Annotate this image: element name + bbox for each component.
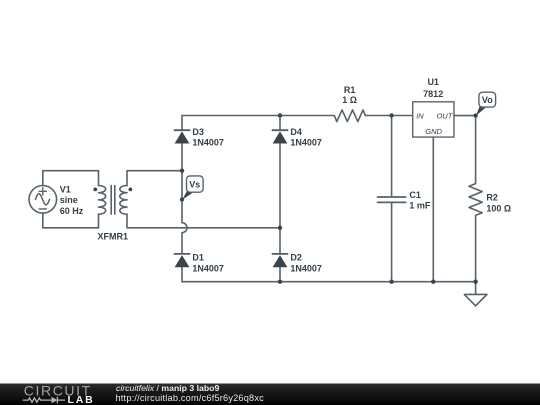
wire R1 to U1	[366, 115, 413, 117]
svg-text:D3: D3	[192, 127, 204, 137]
wire top rail	[182, 115, 334, 117]
svg-text:C1: C1	[409, 190, 421, 200]
diode D1	[174, 254, 191, 267]
svg-text:LAB: LAB	[68, 394, 95, 405]
junction dot secondary top	[180, 169, 184, 173]
svg-text:Vs: Vs	[189, 179, 200, 189]
logo diode triangle	[52, 397, 58, 404]
svg-text:IN: IN	[416, 111, 424, 120]
svg-text:7812: 7812	[423, 89, 443, 99]
svg-text:100 Ω: 100 Ω	[486, 203, 511, 213]
diode D4	[272, 130, 289, 143]
transformer XFMR1 primary coil	[99, 186, 106, 215]
svg-text:D2: D2	[290, 253, 302, 263]
junction dot top rail at C1 branch	[389, 113, 393, 117]
voltage source V1	[29, 186, 57, 214]
capacitor C1 plates	[378, 197, 406, 202]
node Vs dot	[180, 197, 184, 201]
junction dot secondary bottom at D2 branch	[278, 226, 282, 230]
wire V1 top loop	[43, 171, 99, 186]
junction dot bottom rail R2	[473, 280, 477, 284]
transformer XFMR1 secondary coil	[120, 186, 127, 215]
diode D2	[272, 254, 289, 267]
transformer core	[111, 186, 115, 215]
wire secondary top	[127, 171, 182, 186]
svg-text:R1: R1	[344, 85, 356, 95]
svg-text:http://circuitlab.com/c6f5r6y2: http://circuitlab.com/c6f5r6y26q8xc	[116, 393, 265, 403]
svg-text:1 Ω: 1 Ω	[342, 95, 357, 105]
resistor R2 branch bottom	[475, 215, 477, 281]
svg-text:1N4007: 1N4007	[192, 263, 224, 273]
flag Vo	[476, 92, 496, 116]
transformer phase dot secondary	[129, 188, 133, 192]
wire U1 OUT	[454, 115, 476, 117]
wire V1 bottom loop	[43, 213, 99, 228]
flag Vs	[182, 176, 203, 200]
svg-text:1 mF: 1 mF	[409, 201, 431, 211]
junction node Vo	[473, 113, 477, 117]
wire bridge right branch	[279, 116, 281, 282]
capacitor C1 branch bottom	[391, 202, 393, 281]
junction dot top rail at D4 branch	[278, 113, 282, 117]
svg-text:R2: R2	[486, 193, 498, 203]
logo resistor-diode line	[23, 397, 65, 404]
svg-text:1N4007: 1N4007	[290, 138, 322, 148]
svg-text:D1: D1	[192, 253, 204, 263]
svg-text:D4: D4	[290, 127, 302, 137]
resistor R2 branch top	[475, 116, 477, 184]
svg-text:circuitfelix / manip 3 labo9: circuitfelix / manip 3 labo9	[116, 383, 219, 393]
svg-text:U1: U1	[427, 77, 439, 87]
junction dot bottom rail C1	[389, 280, 393, 284]
svg-text:60 Hz: 60 Hz	[60, 206, 84, 216]
wire U1 GND pin	[432, 137, 434, 282]
svg-text:1N4007: 1N4007	[192, 138, 224, 148]
svg-text:sine: sine	[60, 195, 78, 205]
wire bottom rail	[182, 281, 476, 283]
diode D3	[174, 130, 191, 143]
wire secondary bottom	[127, 214, 280, 228]
wire bridge left branch with hop	[182, 116, 187, 282]
svg-text:OUT: OUT	[436, 111, 453, 120]
junction dot bottom rail GND pin	[431, 280, 435, 284]
capacitor C1 branch top	[391, 116, 393, 198]
svg-text:Vo: Vo	[482, 95, 493, 105]
svg-text:GND: GND	[425, 127, 442, 136]
svg-text:XFMR1: XFMR1	[98, 231, 129, 241]
svg-text:1N4007: 1N4007	[290, 263, 322, 273]
svg-text:V1: V1	[60, 185, 71, 195]
ground	[464, 282, 487, 306]
resistor R2	[469, 184, 482, 216]
transformer phase dot primary	[93, 188, 97, 192]
junction dot bottom rail D2	[278, 280, 282, 284]
resistor R1	[334, 110, 365, 122]
regulator U1 box	[413, 102, 454, 137]
